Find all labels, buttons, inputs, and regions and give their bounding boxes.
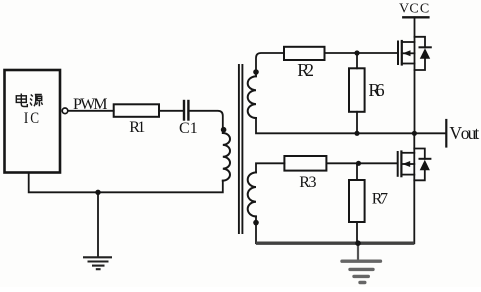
- svg-text:M: M: [93, 96, 107, 113]
- svg-text:I: I: [24, 110, 29, 127]
- svg-text:C: C: [420, 1, 429, 16]
- svg-text:1: 1: [190, 120, 198, 137]
- svg-text:3: 3: [309, 174, 317, 191]
- svg-text:7: 7: [380, 190, 388, 207]
- svg-text:C: C: [179, 120, 190, 137]
- svg-text:out: out: [461, 123, 480, 143]
- svg-text:2: 2: [305, 60, 314, 80]
- svg-text:V: V: [399, 1, 409, 16]
- svg-text:C: C: [409, 1, 418, 16]
- svg-text:6: 6: [376, 80, 385, 100]
- svg-text:1: 1: [137, 119, 145, 136]
- svg-text:C: C: [30, 110, 39, 127]
